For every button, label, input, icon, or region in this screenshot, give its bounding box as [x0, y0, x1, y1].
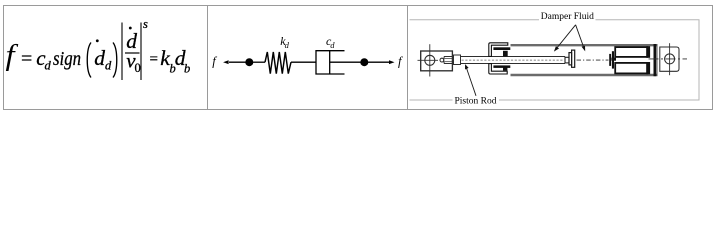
cell divider 2: [407, 6, 409, 110]
right clevis: [649, 43, 688, 75]
piston hub plate B: [612, 51, 614, 68]
svg-text:Damper Fluid: Damper Fluid: [541, 12, 594, 22]
svg-text:b: b: [184, 62, 190, 76]
gland top inner bar: [493, 47, 510, 50]
svg-text:d: d: [330, 40, 335, 50]
left clevis vertical centerline: [429, 44, 431, 76]
rod end flange inside cylinder: [565, 50, 575, 67]
piston rod collar: [454, 55, 461, 65]
cylinder bottom wall: [511, 74, 657, 76]
outer table border: [4, 6, 713, 110]
inner drawing frame: [410, 20, 700, 100]
piston hub center: [611, 58, 616, 61]
svg-text:d: d: [45, 59, 52, 73]
piston rod main: [461, 56, 566, 58]
leader line: [466, 68, 476, 96]
gland top tab: [503, 51, 508, 57]
gland top outer band: [489, 43, 508, 57]
right arrow: [364, 61, 389, 63]
cylinder top wall: [511, 44, 657, 46]
label piston rod with white backing: [453, 64, 500, 106]
leader arrowhead: [465, 64, 469, 69]
right clevis vertical centerline: [669, 43, 671, 75]
gland bottom outer band: [489, 64, 507, 74]
spring kd: [265, 52, 291, 74]
cell divider 1: [207, 6, 209, 110]
label damper fluid with white backing: [539, 10, 596, 52]
rod-end pin tube: [444, 57, 453, 64]
wire node to spring: [249, 61, 265, 63]
left clevis eye circle: [425, 55, 435, 65]
piston hub plate A: [609, 54, 611, 66]
damper cd cylinder: [316, 51, 345, 74]
flange plate 1: [569, 53, 572, 65]
gland bottom tab: [503, 68, 507, 71]
right clevis horizontal centerline: [649, 58, 688, 60]
cylinder right end cap: [654, 44, 657, 76]
equation left vertical bar: [121, 23, 123, 81]
svg-text:Piston Rod: Piston Rod: [455, 96, 497, 106]
wire spring to damper: [291, 61, 316, 63]
flange plate 2: [572, 50, 575, 67]
piston right wall lower: [646, 62, 650, 74]
svg-text:d: d: [94, 46, 105, 70]
svg-text:=: =: [150, 52, 158, 68]
piston right wall upper: [646, 46, 650, 58]
piston upper chamber rect: [615, 47, 647, 57]
left clevis block: [421, 51, 453, 71]
svg-text:s: s: [143, 17, 148, 31]
right clevis eye circle: [665, 54, 675, 64]
flange neck: [565, 57, 569, 63]
svg-text:d: d: [285, 40, 290, 50]
piston assembly right: [609, 46, 650, 74]
damper piston plate: [329, 51, 331, 74]
left clevis horizontal centerline: [418, 59, 439, 61]
left arrow: [229, 61, 249, 63]
equation fraction bar: [125, 52, 140, 54]
right clevis block: [660, 47, 679, 71]
equation right vertical bar: [140, 23, 142, 81]
svg-text:d: d: [105, 59, 112, 73]
wire piston to node: [330, 61, 365, 63]
leader arrowhead right: [582, 46, 586, 52]
centerline dash-dot after rod: [577, 59, 609, 61]
gland / cylinder head: [489, 43, 511, 74]
equation right paren: [113, 43, 117, 78]
equation left paren: [87, 43, 91, 78]
centerline dotted inside rod: [462, 59, 565, 61]
leader arrowhead left: [554, 46, 559, 51]
rod-end ball: [440, 58, 444, 62]
node circle right: [360, 58, 368, 66]
piston lower chamber rect: [615, 63, 647, 74]
svg-text:sign: sign: [53, 48, 81, 70]
node circle left: [245, 58, 253, 66]
leader line left: [557, 25, 575, 48]
leader line right: [576, 25, 584, 46]
svg-text:=: =: [21, 48, 32, 70]
gland bottom inner bar: [493, 65, 510, 68]
svg-text:0: 0: [135, 61, 141, 75]
